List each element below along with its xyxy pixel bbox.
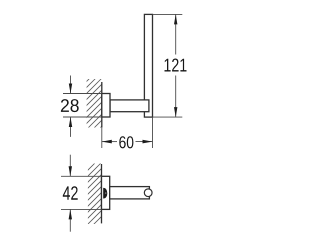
wall face line (side view) <box>101 82 103 127</box>
wall face line (front view) <box>101 164 103 223</box>
dimension 121: arrowheads <box>174 14 177 117</box>
dimension 60: extension lines <box>102 117 153 148</box>
ball end (front view) <box>144 189 152 197</box>
vertical post (side view) <box>144 14 152 117</box>
dimension 28: label <box>61 99 79 112</box>
dimension 121: label <box>165 59 187 72</box>
support arm (side view) <box>110 100 149 112</box>
dimension 60: arrowheads <box>102 140 153 144</box>
wall plate (front view) <box>102 176 110 209</box>
mounting pin (front view, black) <box>103 188 107 199</box>
wall hatching (front view) <box>82 150 108 236</box>
rod (front view) <box>110 187 150 199</box>
dimension 42: arrowheads <box>69 166 72 219</box>
wall plate (side view) <box>102 94 110 118</box>
dimension 28: extension lines <box>63 76 102 137</box>
dimension 60: label <box>119 136 133 148</box>
dimension 42: extension lines <box>61 155 102 232</box>
dimension 121: extension lines <box>153 14 183 117</box>
dimension 28: arrowheads <box>69 84 72 128</box>
dimension 42: label <box>63 186 78 200</box>
wall hatching (side view) <box>80 62 106 148</box>
